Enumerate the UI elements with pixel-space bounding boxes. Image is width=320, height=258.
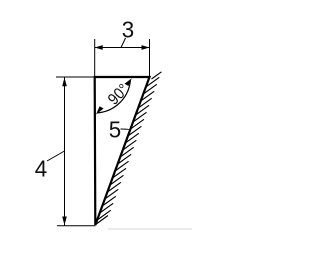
leader of label 3 <box>121 38 126 48</box>
hatching on hypotenuse <box>96 72 162 225</box>
arrow at top end of arc <box>125 78 132 86</box>
svg-text:3: 3 <box>122 16 134 43</box>
arrow bottom of dim 4 <box>62 217 67 226</box>
dimension line 4 <box>64 77 66 226</box>
extension line right of dim 3 <box>149 39 151 76</box>
leader of label 5 <box>121 128 130 130</box>
arrow top of dim 4 <box>62 78 67 87</box>
arrow at bottom end of arc <box>96 106 104 114</box>
svg-text:4: 4 <box>35 155 48 182</box>
faint scan artifact line <box>108 228 192 230</box>
leader of label 4 <box>47 151 65 161</box>
extension line left of dim 3 <box>94 39 96 76</box>
svg-text:5: 5 <box>109 116 121 143</box>
arrow left of dim 3 <box>95 45 103 50</box>
arrow right of dim 3 <box>142 45 150 50</box>
extension line top of dim 4 <box>56 76 94 78</box>
angle arc 90 degrees <box>98 81 131 113</box>
triangle <box>95 77 150 225</box>
dimension line 3 <box>95 47 150 49</box>
extension line bottom of dim 4 <box>57 225 96 227</box>
